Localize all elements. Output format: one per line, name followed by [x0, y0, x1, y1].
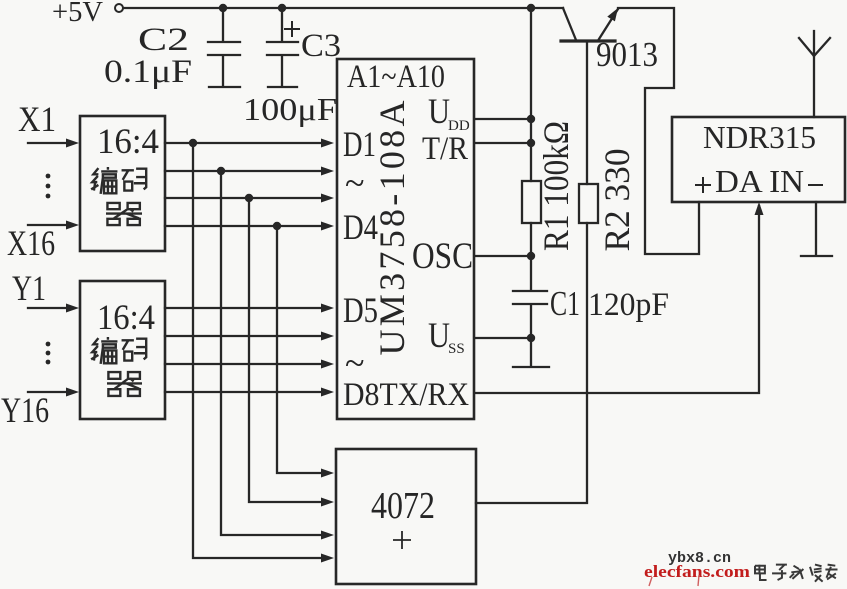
svg-text:X16: X16: [7, 223, 55, 263]
svg-text:R2 330: R2 330: [597, 149, 637, 252]
svg-text:16:4: 16:4: [97, 121, 159, 161]
svg-text:Y16: Y16: [1, 390, 49, 430]
svg-text:U: U: [428, 315, 450, 355]
svg-text:C1: C1: [550, 284, 580, 323]
svg-text:0.1μF: 0.1μF: [104, 54, 192, 90]
svg-text:4072: 4072: [371, 485, 435, 527]
svg-text:X1: X1: [18, 99, 56, 139]
svg-text:NDR315: NDR315: [703, 119, 816, 155]
svg-text:9013: 9013: [596, 35, 658, 74]
svg-text:C3: C3: [301, 28, 341, 64]
svg-text:Y1: Y1: [12, 268, 46, 308]
svg-text:C2: C2: [138, 22, 189, 58]
svg-text:T/R: T/R: [422, 131, 468, 167]
svg-text:16:4: 16:4: [97, 297, 155, 337]
svg-text:DA IN: DA IN: [715, 163, 804, 199]
svg-text:SS: SS: [448, 341, 465, 357]
svg-text:OSC: OSC: [412, 236, 473, 277]
svg-text:100μF: 100μF: [243, 91, 337, 127]
svg-text:120pF: 120pF: [588, 287, 669, 323]
svg-text:elecfans.com: elecfans.com: [644, 562, 750, 581]
svg-text:A1~A10: A1~A10: [347, 59, 445, 95]
svg-text:D8TX/RX: D8TX/RX: [343, 377, 469, 413]
svg-text:~: ~: [345, 163, 364, 203]
svg-text:U: U: [428, 91, 450, 131]
svg-text:R1 100kΩ: R1 100kΩ: [536, 121, 576, 251]
svg-text:+5V: +5V: [52, 0, 103, 28]
